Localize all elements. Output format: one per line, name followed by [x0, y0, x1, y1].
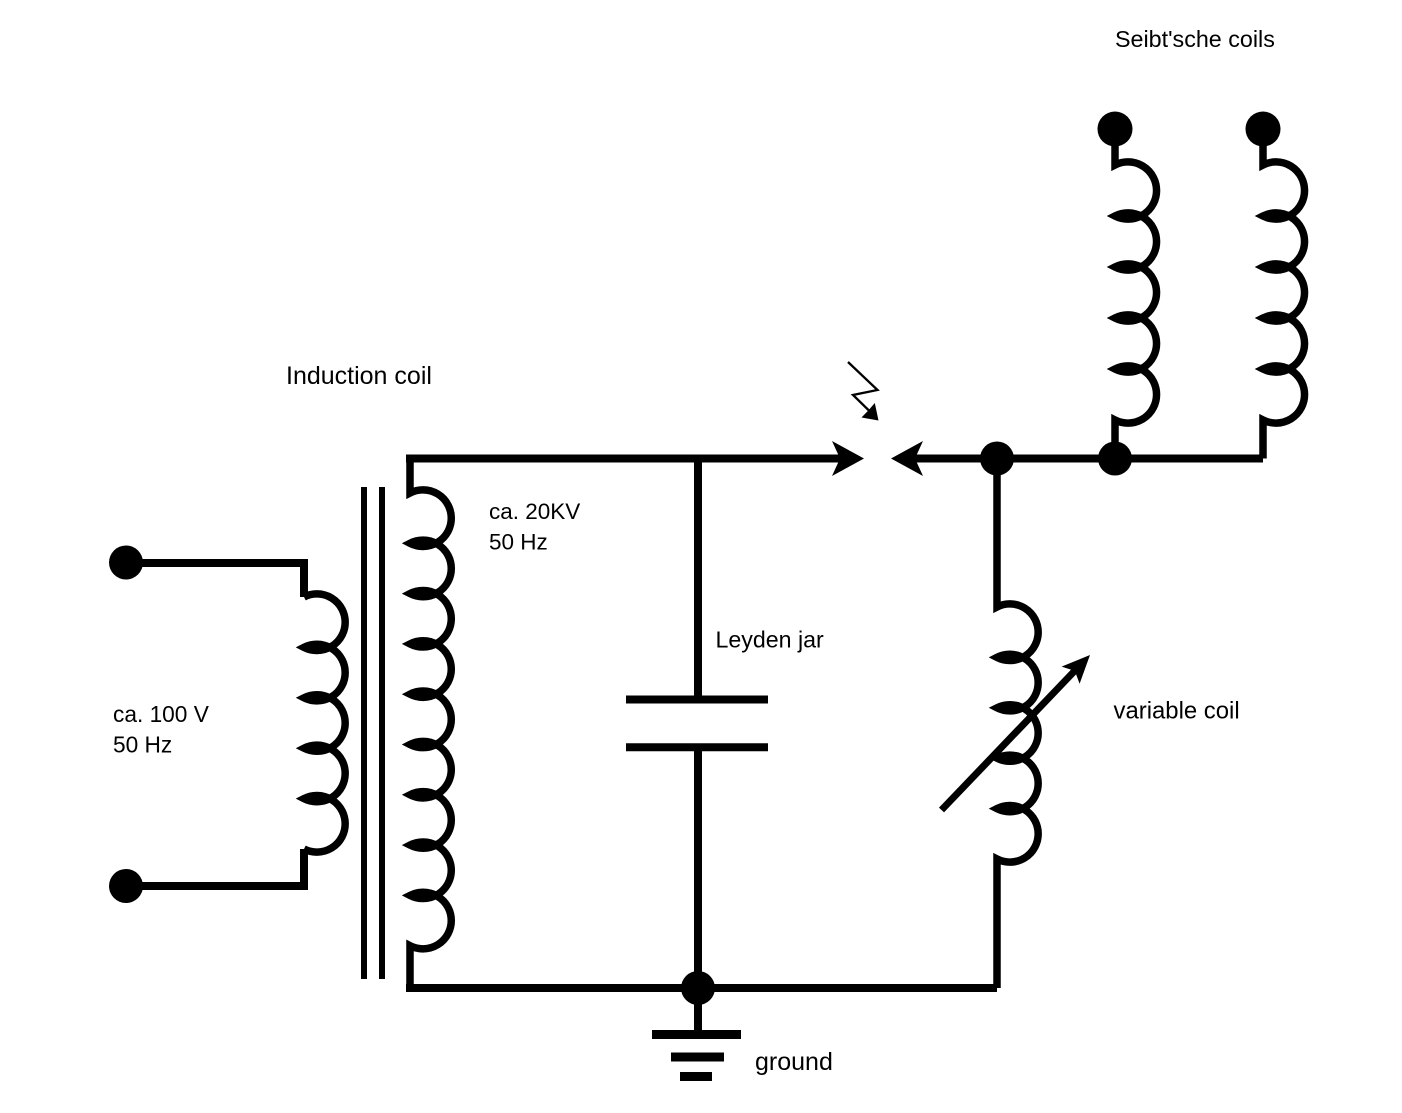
wire capacitor bottom lead [694, 747, 702, 988]
inductor L5 Seibt coil right [1263, 132, 1305, 459]
junction node bottom [681, 971, 715, 1005]
terminal dot primary bottom [109, 869, 143, 903]
svg-text:Induction coil: Induction coil [286, 362, 432, 390]
svg-text:Leyden jar: Leyden jar [716, 627, 825, 653]
transformer core line right [379, 487, 385, 979]
spark gap arrowhead left [832, 441, 864, 476]
svg-text:Seibt'sche coils: Seibt'sche coils [1115, 26, 1275, 52]
inductor L1 primary winding [304, 594, 345, 852]
capacitor C1 Leyden jar plate bottom [626, 743, 768, 751]
lightning bolt spark symbol [848, 362, 879, 421]
wire ground lead [694, 988, 702, 1035]
ground symbol [652, 1035, 741, 1077]
wire primary bottom [126, 849, 304, 886]
capacitor C1 Leyden jar plate top [626, 696, 768, 704]
svg-text:ca. 20KV: ca. 20KV [489, 499, 580, 524]
terminal dot primary top [109, 546, 143, 580]
svg-text:ground: ground [755, 1048, 833, 1076]
svg-text:50 Hz: 50 Hz [113, 731, 172, 757]
inductor L4 Seibt coil left [1115, 132, 1157, 459]
wire bottom rail [406, 984, 997, 992]
svg-text:variable coil: variable coil [1114, 698, 1240, 725]
junction node spark gap [980, 442, 1014, 476]
spark gap arrowhead right [891, 441, 923, 476]
wire secondary top to spark gap [406, 455, 841, 463]
wire capacitor top lead [694, 459, 702, 700]
wire spark gap to Seibt coils [914, 455, 1263, 463]
transformer core line left [361, 487, 367, 979]
terminal dot Seibt right [1246, 112, 1281, 147]
wire primary top [126, 563, 304, 597]
terminal dot Seibt left [1098, 112, 1133, 147]
svg-text:ca. 100 V: ca. 100 V [113, 701, 210, 727]
variable coil adjustment arrow [942, 655, 1091, 810]
svg-text:50 Hz: 50 Hz [489, 530, 548, 555]
inductor L2 secondary winding [410, 462, 451, 988]
inductor L3 variable coil [997, 459, 1038, 989]
junction node Seibt left [1098, 442, 1132, 476]
